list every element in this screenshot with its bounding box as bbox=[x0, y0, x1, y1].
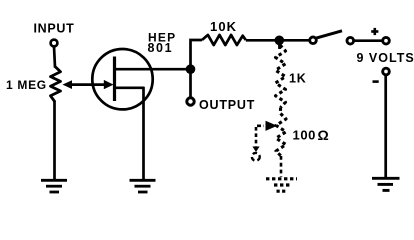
wire: switch to battery + bbox=[354, 39, 383, 42]
wire: Q1 drain to node bbox=[115, 68, 191, 71]
battery negative terminal bbox=[383, 68, 390, 75]
switch S1 lever bbox=[316, 31, 342, 38]
terminal OUTPUT bbox=[187, 98, 194, 105]
wire (dashed): wiper lead bbox=[257, 125, 264, 128]
junction: divider node bbox=[275, 36, 285, 46]
svg-text:801: 801 bbox=[148, 41, 174, 55]
svg-text:1 MEG: 1 MEG bbox=[6, 78, 47, 92]
wire: 10K to switch bbox=[246, 39, 310, 42]
label + bbox=[371, 28, 378, 35]
wiper lead arrowhead (down) bbox=[252, 147, 259, 153]
terminal (dashed circle) on wiper lead bbox=[252, 153, 260, 161]
wire: input terminal to R1 top bbox=[54, 47, 55, 68]
svg-text:100: 100 bbox=[293, 128, 317, 143]
ground (below battery) bbox=[372, 178, 400, 190]
ground (below Q1 source) bbox=[130, 180, 156, 192]
resistor R2 10K body bbox=[202, 35, 246, 45]
label minus bbox=[373, 80, 379, 83]
svg-text:9 VOLTS: 9 VOLTS bbox=[357, 51, 414, 65]
wire: node stub down to R3 bbox=[278, 42, 281, 49]
wire: Q1 source down to ground bbox=[142, 87, 145, 180]
ground (dashed, below R4) bbox=[266, 179, 297, 191]
svg-text:INPUT: INPUT bbox=[34, 22, 75, 36]
transistor Q1 (HEP 801 FET) bbox=[92, 49, 152, 109]
wire: R1 bottom to ground bbox=[53, 101, 56, 180]
junction: drain node bbox=[186, 64, 196, 74]
wire: node vertical riser to 10K bbox=[191, 40, 203, 98]
switch S1 throw terminal bbox=[347, 37, 354, 44]
wire (dashed): R4 bottom to ground bbox=[280, 156, 283, 177]
svg-text:Ω: Ω bbox=[318, 127, 329, 143]
svg-text:1K: 1K bbox=[289, 72, 307, 86]
wire (dashed): R3 to R4 bbox=[279, 108, 282, 114]
potentiometer R1 wiper arrow bbox=[63, 80, 73, 89]
wire: battery - to ground bbox=[384, 75, 387, 178]
resistor R3 1K (dotted) bbox=[276, 45, 286, 108]
svg-text:OUTPUT: OUTPUT bbox=[199, 98, 255, 112]
potentiometer R4 body 100 ohm (dotted) bbox=[276, 114, 286, 157]
ground (below R1) bbox=[41, 180, 67, 192]
svg-text:10K: 10K bbox=[210, 19, 237, 34]
wire: wiper to Q1 gate bbox=[70, 83, 106, 86]
potentiometer R1 body 1 MEG bbox=[51, 67, 61, 103]
potentiometer R4 wiper arrow bbox=[266, 121, 278, 131]
battery positive terminal bbox=[383, 37, 390, 44]
terminal: input jack bbox=[51, 40, 58, 47]
switch S1 pole terminal bbox=[310, 37, 317, 44]
